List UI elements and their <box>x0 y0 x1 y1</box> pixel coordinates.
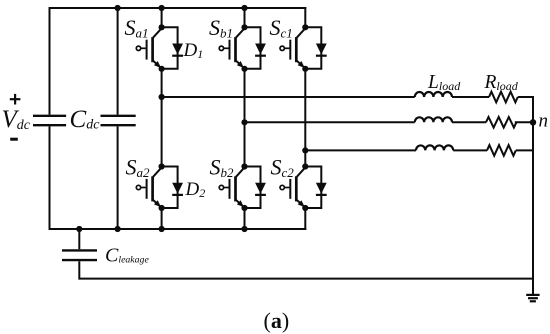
node junction dot phase b top bus <box>241 5 247 11</box>
wire bottom DC bus <box>49 228 307 230</box>
wire top DC bus <box>49 7 307 9</box>
node n junction dot <box>530 119 536 125</box>
capacitor Vdc source plates <box>33 116 66 125</box>
wire left rail upper segment <box>49 7 51 115</box>
resistor Rload phase c <box>487 145 516 156</box>
diode of Sc2 <box>316 183 327 195</box>
wire phase a emitter stub <box>161 208 163 230</box>
node junction dot Cleakage on bottom bus <box>76 226 82 232</box>
wire phase c between L and R <box>453 149 487 151</box>
wire phase c collector stub <box>304 7 306 27</box>
node phase b output junction <box>241 119 247 125</box>
capacitor Cdc <box>101 116 136 125</box>
diode of Sb2 <box>255 183 266 195</box>
svg-text:Rload: Rload <box>484 72 519 93</box>
svg-text:Sb2: Sb2 <box>210 155 235 181</box>
node junction dot Cdc top bus <box>115 5 121 11</box>
node junction dot phase b on bottom bus <box>241 226 247 232</box>
transistor Sa1 (IGBT top, phase a) <box>136 24 177 72</box>
diode D1 (antiparallel of Sa1) <box>172 44 183 56</box>
wire Cleakage top lead <box>78 229 80 249</box>
svg-text:Cdc: Cdc <box>70 106 101 133</box>
resistor Rload phase b <box>486 117 516 128</box>
node junction dot phase a top bus <box>159 5 165 11</box>
svg-text:Lload: Lload <box>427 72 461 93</box>
node junction dot Cdc on bottom bus <box>115 226 121 232</box>
wire phase a between L and R <box>452 96 489 98</box>
transistor Sa2 (IGBT bottom, phase a) <box>136 163 177 211</box>
wire phase c to right rail <box>516 149 534 151</box>
wire right rail <box>532 96 534 280</box>
svg-text:D1: D1 <box>183 40 204 61</box>
capacitor Cleakage <box>62 250 97 260</box>
wire phase a midpoint segment <box>161 69 163 167</box>
resistor Rload phase a <box>489 92 518 103</box>
wire Cdc leg upper segment <box>117 8 119 115</box>
transistor Sc2 (IGBT bottom, phase c) <box>280 163 321 211</box>
wire phase b between L and R <box>452 121 486 123</box>
wire phase b output line <box>245 121 415 123</box>
inductor Lload phase a <box>415 92 452 97</box>
wire phase a output line <box>162 96 415 98</box>
svg-text:n: n <box>539 111 549 132</box>
wire phase c output line <box>305 149 416 151</box>
node phase c output junction <box>302 147 308 153</box>
inductor Lload phase b <box>415 117 452 122</box>
inductor Lload phase c <box>416 145 453 150</box>
wire phase a collector stub <box>161 8 163 27</box>
svg-text:D2: D2 <box>185 179 206 200</box>
svg-text:Sa1: Sa1 <box>125 15 149 41</box>
wire phase b to node n <box>515 121 533 123</box>
node phase a output junction <box>159 94 165 100</box>
diode of Sb1 <box>255 44 266 56</box>
wire bottom return to ground <box>79 278 534 280</box>
wire phase a to right rail <box>518 96 534 98</box>
wire phase b emitter stub <box>244 208 246 230</box>
svg-text:Vdc: Vdc <box>2 106 31 133</box>
wire Cleakage bottom lead <box>78 261 80 279</box>
svg-text:Sa2: Sa2 <box>126 155 151 181</box>
node junction dot phase a on bottom bus <box>159 226 165 232</box>
svg-text:Sb1: Sb1 <box>209 15 233 41</box>
label Vdc minus sign <box>10 138 18 141</box>
diode D2 (antiparallel of Sa2) <box>172 183 183 195</box>
svg-text:Sc1: Sc1 <box>270 15 293 41</box>
label Vdc plus sign <box>10 94 21 105</box>
wire phase c emitter stub <box>304 208 306 230</box>
transistor Sb1 (IGBT top, phase b) <box>219 24 260 72</box>
diode of Sc1 <box>316 44 327 56</box>
transistor Sb2 (IGBT bottom, phase b) <box>219 163 260 211</box>
wire Cdc leg lower segment <box>117 126 119 229</box>
ground symbol <box>526 279 539 302</box>
svg-text:Sc2: Sc2 <box>271 155 295 181</box>
svg-text:(a): (a) <box>264 308 290 333</box>
transistor Sc1 (IGBT top, phase c) <box>280 24 321 72</box>
wire phase b midpoint segment <box>244 69 246 167</box>
wire phase b collector stub <box>244 8 246 27</box>
wire left rail lower segment <box>49 126 51 230</box>
svg-text:Cleakage: Cleakage <box>105 245 149 267</box>
wire phase c midpoint segment <box>304 69 306 167</box>
